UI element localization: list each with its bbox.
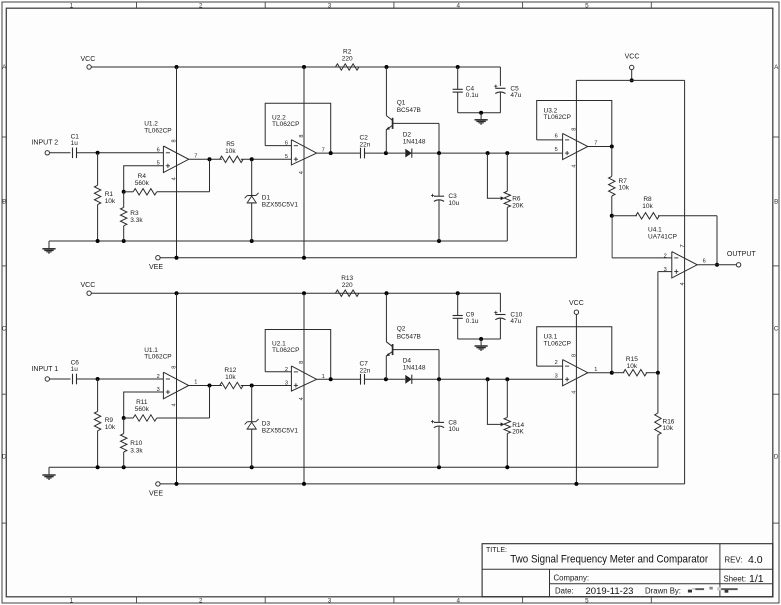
svg-text:D: D: [774, 453, 779, 460]
svg-text:4: 4: [299, 171, 305, 174]
svg-text:1u: 1u: [71, 366, 79, 373]
svg-text:4: 4: [299, 397, 305, 400]
svg-text:C7: C7: [360, 361, 369, 368]
svg-text:R3: R3: [130, 210, 139, 217]
svg-text:6: 6: [703, 259, 706, 265]
svg-text:R10: R10: [130, 440, 142, 447]
svg-text:VCC: VCC: [625, 54, 640, 61]
svg-text:7: 7: [194, 153, 197, 159]
svg-text:4: 4: [172, 403, 178, 406]
svg-text:4: 4: [572, 164, 578, 167]
svg-text:OUTPUT: OUTPUT: [727, 251, 757, 258]
svg-text:BZX55C5V1: BZX55C5V1: [262, 201, 299, 208]
svg-text:Two Signal Frequency Meter and: Two Signal Frequency Meter and Comparato…: [510, 553, 708, 565]
svg-text:VEE: VEE: [149, 490, 163, 497]
svg-text:C: C: [774, 325, 779, 332]
svg-text:6: 6: [157, 148, 160, 154]
svg-text:4: 4: [456, 2, 460, 9]
svg-text:3: 3: [555, 373, 558, 379]
svg-text:4: 4: [172, 177, 178, 180]
svg-text:D1: D1: [262, 194, 271, 201]
svg-text:8: 8: [172, 139, 178, 142]
svg-text:0.1u: 0.1u: [466, 92, 479, 99]
svg-text:R11: R11: [136, 399, 148, 406]
svg-text:TITLE:: TITLE:: [486, 547, 507, 554]
svg-text:220: 220: [342, 56, 353, 63]
svg-text:Q1: Q1: [397, 99, 406, 106]
svg-text:4: 4: [572, 391, 578, 394]
svg-text:INPUT 2: INPUT 2: [31, 140, 58, 147]
svg-text:1: 1: [70, 2, 74, 9]
svg-text:3.3k: 3.3k: [130, 447, 143, 454]
svg-text:R2: R2: [343, 49, 352, 56]
svg-text:UA741CP: UA741CP: [648, 234, 677, 241]
svg-text:47u: 47u: [510, 92, 521, 99]
svg-text:8: 8: [172, 366, 178, 369]
svg-text:5: 5: [555, 147, 558, 153]
svg-text:2: 2: [664, 253, 667, 259]
svg-text:0.1u: 0.1u: [466, 318, 479, 325]
svg-text:VEE: VEE: [149, 264, 163, 271]
svg-text:22n: 22n: [360, 141, 371, 148]
svg-text:REV:: REV:: [725, 555, 743, 564]
svg-text:Date:: Date:: [555, 587, 574, 596]
svg-text:B: B: [774, 198, 778, 205]
svg-text:5: 5: [285, 154, 288, 160]
svg-text:R4: R4: [138, 173, 147, 180]
svg-text:C: C: [2, 325, 7, 332]
svg-text:Company:: Company:: [554, 573, 590, 582]
svg-text:2: 2: [199, 2, 203, 9]
svg-text:TL062CP: TL062CP: [272, 347, 299, 354]
svg-text:3: 3: [328, 598, 332, 605]
svg-text:4.0: 4.0: [748, 554, 763, 566]
svg-text:3: 3: [285, 380, 288, 386]
svg-text:47u: 47u: [510, 318, 521, 325]
svg-text:D: D: [2, 453, 7, 460]
svg-text:1N4148: 1N4148: [403, 139, 426, 146]
svg-text:3: 3: [328, 2, 332, 9]
svg-text:TL062CP: TL062CP: [272, 121, 299, 128]
svg-text:8: 8: [299, 134, 305, 137]
svg-text:C2: C2: [360, 134, 369, 141]
svg-text:BC547B: BC547B: [397, 107, 421, 114]
svg-text:6: 6: [285, 141, 288, 147]
svg-text:8: 8: [572, 354, 578, 357]
svg-text:8: 8: [572, 128, 578, 131]
svg-text:Q2: Q2: [397, 326, 406, 333]
svg-text:1: 1: [194, 380, 197, 386]
svg-text:TL062CP: TL062CP: [544, 340, 571, 347]
svg-text:560k: 560k: [135, 180, 150, 187]
svg-text:1: 1: [322, 374, 325, 380]
svg-text:2: 2: [157, 374, 160, 380]
svg-text:7: 7: [594, 141, 597, 147]
svg-text:2: 2: [555, 360, 558, 366]
svg-text:2019-11-23: 2019-11-23: [586, 586, 634, 597]
svg-text:10k: 10k: [105, 424, 116, 431]
svg-text:20K: 20K: [512, 203, 524, 210]
svg-text:6: 6: [555, 134, 558, 140]
svg-text:22n: 22n: [360, 368, 371, 375]
svg-text:BC547B: BC547B: [397, 333, 421, 340]
svg-text:VCC: VCC: [81, 282, 96, 289]
svg-text:220: 220: [342, 282, 353, 289]
svg-text:1/1: 1/1: [749, 573, 764, 585]
svg-text:3: 3: [157, 387, 160, 393]
svg-text:R5: R5: [226, 141, 235, 148]
svg-text:1u: 1u: [71, 140, 79, 147]
svg-text:BZX55C5V1: BZX55C5V1: [262, 428, 299, 435]
svg-text:3: 3: [664, 267, 667, 273]
svg-text:10k: 10k: [225, 148, 236, 155]
svg-text:20K: 20K: [512, 429, 524, 436]
svg-text:1: 1: [594, 367, 597, 373]
svg-text:D3: D3: [262, 421, 271, 428]
svg-text:TL062CP: TL062CP: [544, 114, 571, 121]
svg-text:8: 8: [299, 361, 305, 364]
svg-text:TL062CP: TL062CP: [144, 127, 171, 134]
svg-text:R1: R1: [105, 191, 114, 198]
svg-text:560k: 560k: [135, 406, 150, 413]
svg-text:5: 5: [157, 161, 160, 167]
svg-text:B: B: [2, 198, 6, 205]
svg-text:10k: 10k: [619, 185, 630, 192]
svg-text:Drawn By:: Drawn By:: [645, 587, 681, 596]
svg-text:10k: 10k: [225, 374, 236, 381]
svg-text:1: 1: [70, 598, 74, 605]
svg-text:D4: D4: [403, 358, 412, 365]
svg-text:5: 5: [585, 2, 589, 9]
svg-text:1N4148: 1N4148: [403, 365, 426, 372]
svg-text:4: 4: [456, 598, 460, 605]
svg-text:10u: 10u: [448, 426, 459, 433]
svg-text:R9: R9: [105, 417, 114, 424]
svg-text:10u: 10u: [448, 200, 459, 207]
svg-text:3.3k: 3.3k: [130, 217, 143, 224]
svg-text:R13: R13: [341, 275, 353, 282]
svg-text:VCC: VCC: [569, 300, 584, 307]
svg-text:INPUT 1: INPUT 1: [31, 366, 58, 373]
svg-text:2: 2: [285, 367, 288, 373]
svg-text:10k: 10k: [642, 203, 653, 210]
svg-text:7: 7: [680, 244, 686, 247]
svg-text:Sheet:: Sheet:: [724, 574, 747, 583]
svg-text:D2: D2: [403, 131, 412, 138]
svg-text:10k: 10k: [105, 198, 116, 205]
svg-text:10k: 10k: [627, 363, 638, 370]
svg-text:4: 4: [680, 282, 686, 285]
svg-text:10k: 10k: [663, 425, 674, 432]
svg-text:5: 5: [585, 598, 589, 605]
svg-text:7: 7: [322, 148, 325, 154]
svg-text:VCC: VCC: [81, 56, 96, 63]
svg-text:2: 2: [199, 598, 203, 605]
svg-text:R12: R12: [224, 367, 236, 374]
svg-text:TL062CP: TL062CP: [144, 354, 171, 361]
